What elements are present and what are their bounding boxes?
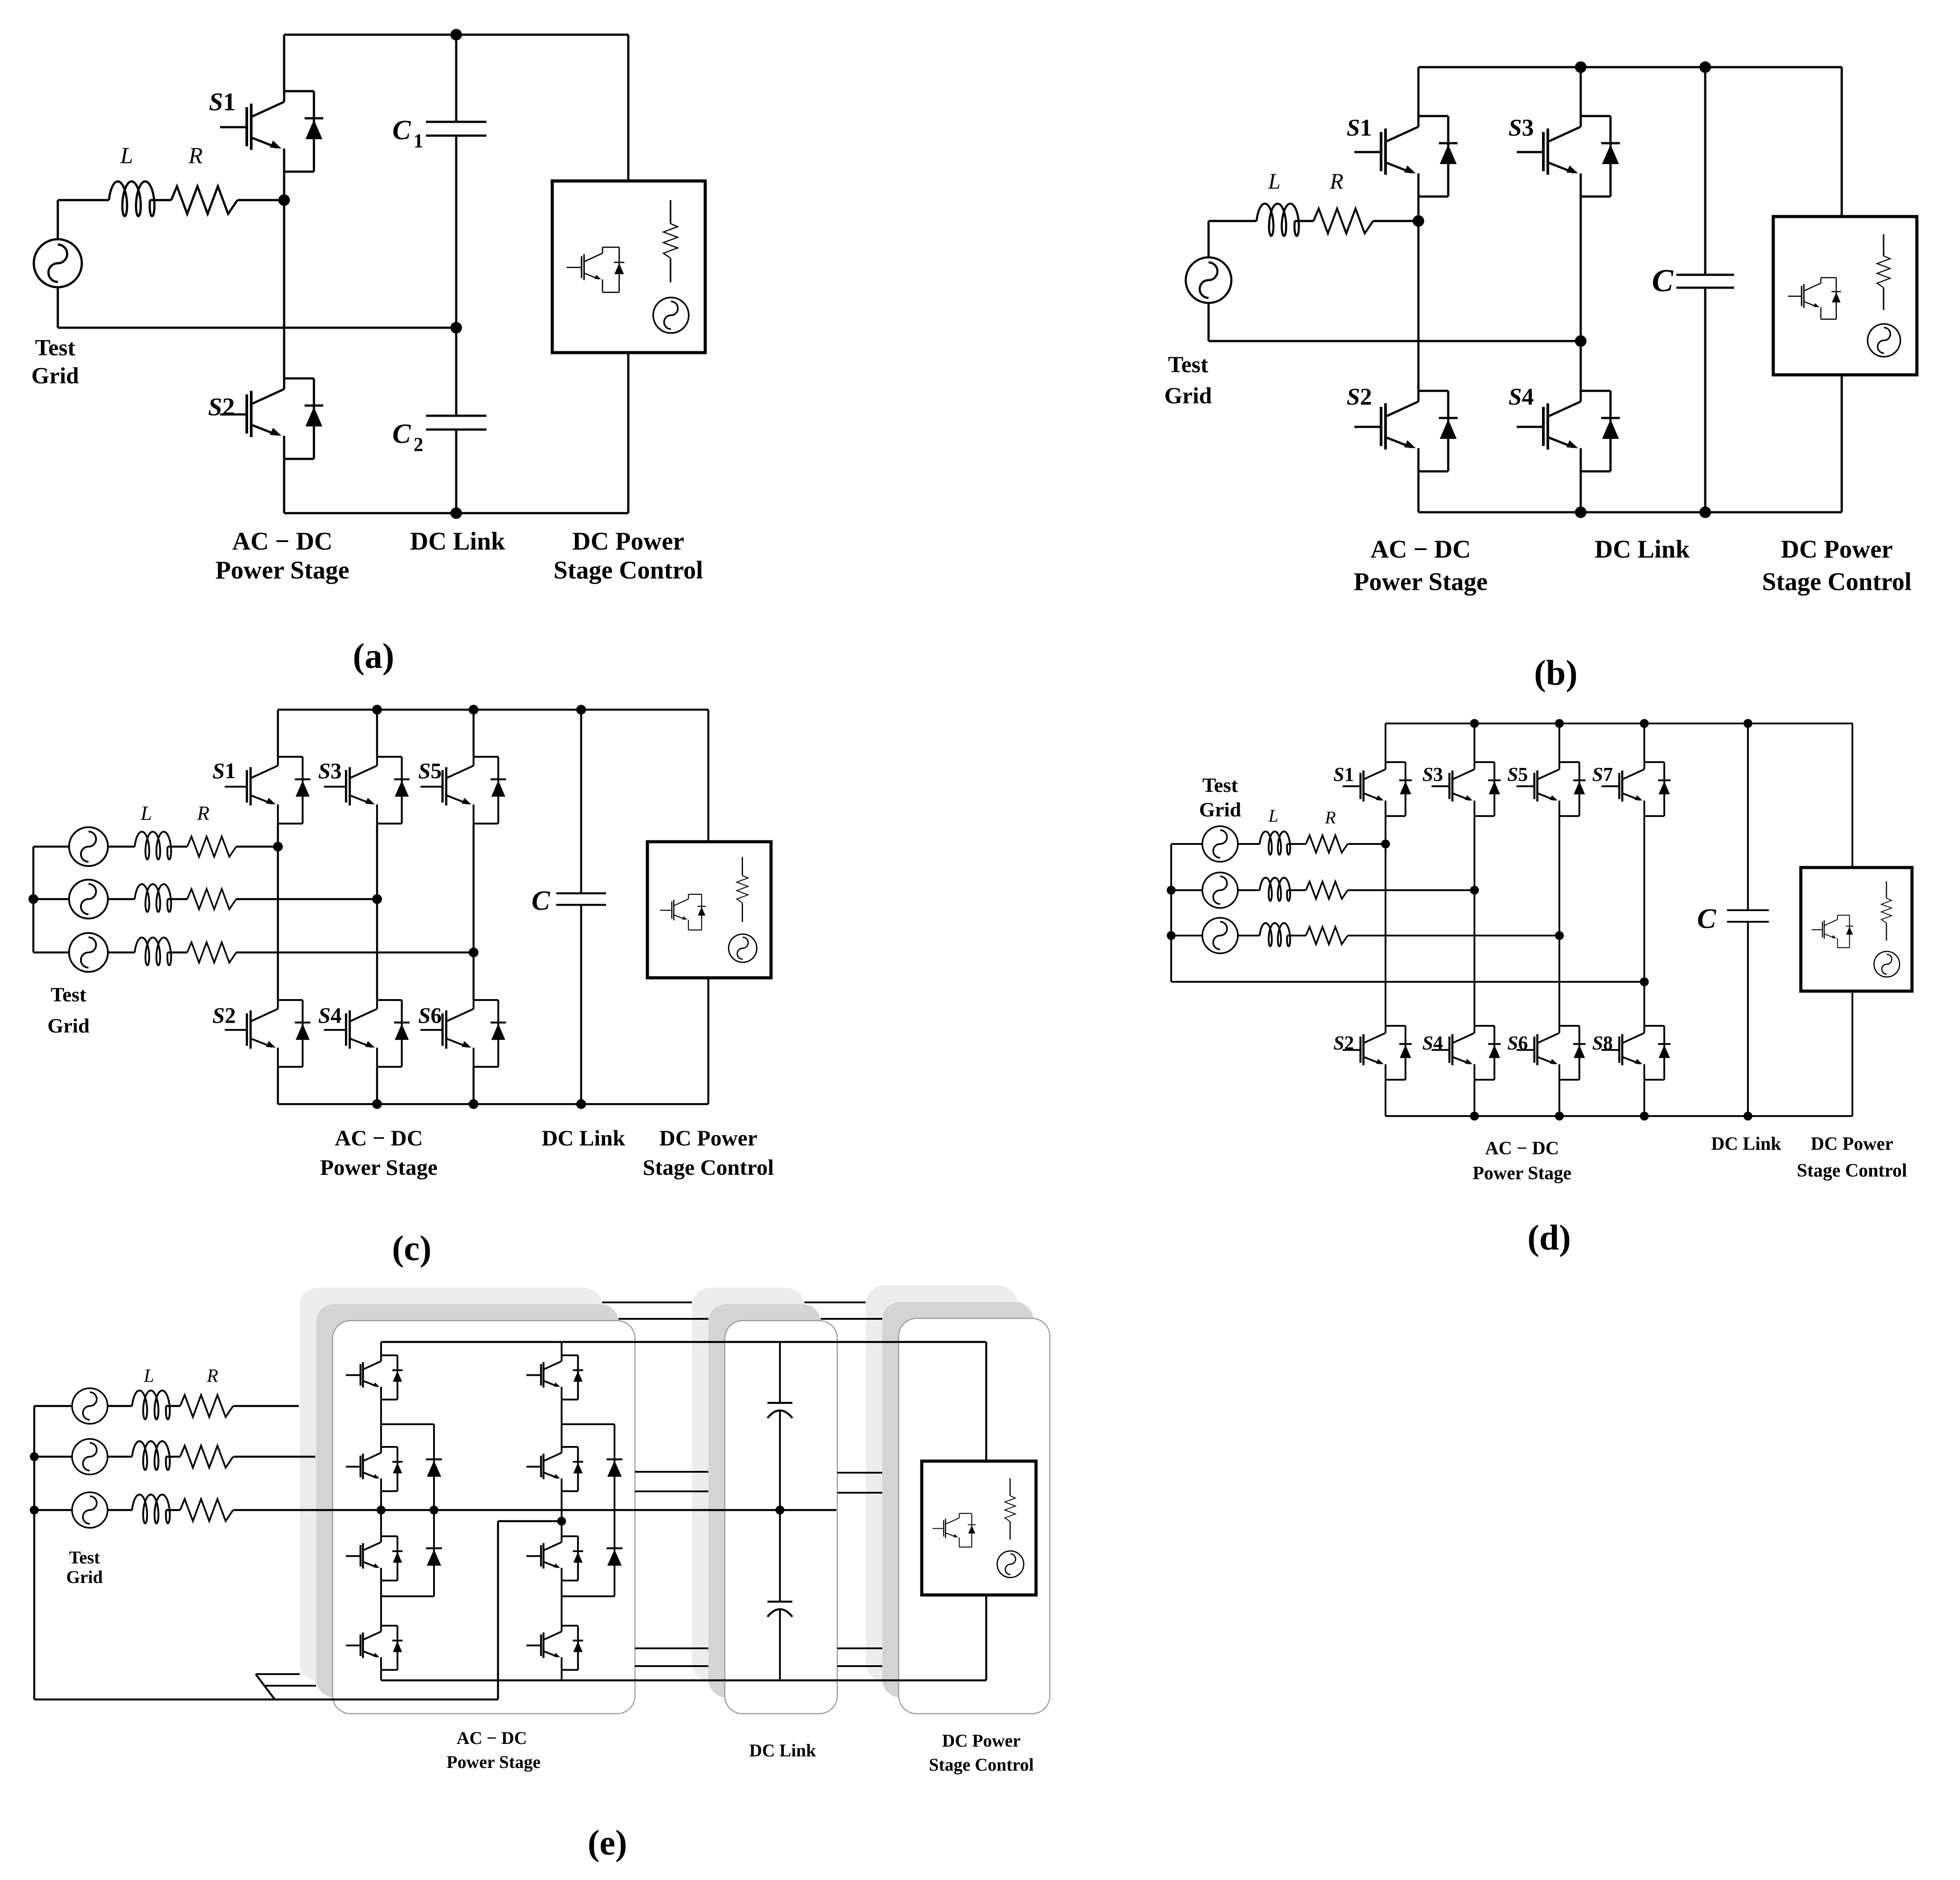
svg-text:C: C: [392, 419, 411, 449]
node: phase A / leg junction: [1381, 840, 1390, 848]
wire: bottom DC bus: [381, 1679, 986, 1682]
resistor R phase A: [1306, 835, 1348, 852]
svg-text:R: R: [197, 802, 209, 824]
wire: S1 emitter lead: [1385, 816, 1386, 844]
wire: resistor to leg phase A: [236, 846, 278, 848]
wire: top DC rail: [1386, 723, 1852, 724]
svg-text:S4: S4: [1508, 383, 1534, 410]
transistor S5: [1517, 762, 1586, 816]
wire: S3 emitter lead: [376, 824, 378, 899]
svg-text:S6: S6: [418, 1003, 442, 1028]
svg-text:Power Stage: Power Stage: [1354, 568, 1487, 596]
wire: bus to AC source phase B: [34, 1456, 72, 1458]
transistor leg A module 1 (IGBT with antiparallel diode): [346, 1355, 403, 1400]
wire: AC return to S3-S4 midpoint: [1209, 340, 1581, 342]
node: bottom rail / leg2: [372, 1099, 382, 1109]
node: phase B / leg junction: [372, 894, 382, 904]
wire: AC source to inductor phase A: [108, 1405, 132, 1407]
DC power stage control box (b): outline: [1773, 217, 1917, 375]
wire: back layer top bus (AC-DC to DC link): [602, 1302, 692, 1303]
transistor S4: [1432, 1026, 1501, 1080]
wire: bottom DC rail: [1418, 511, 1842, 514]
svg-text:S2: S2: [1333, 1032, 1354, 1054]
transistor leg B module 1 (IGBT with antiparallel diode): [526, 1355, 583, 1400]
wire: bus to AC source phase A: [33, 846, 69, 848]
wire: neutral return to fourth leg: [1171, 981, 1644, 983]
svg-text:R: R: [1329, 169, 1344, 193]
wire: top DC bus: [381, 1341, 986, 1343]
wire: leg4 to S8: [1643, 982, 1645, 1026]
node: bottom rail / C leg: [576, 1099, 586, 1109]
svg-text:Grid: Grid: [32, 363, 79, 389]
wire: bus to AC source phase B: [33, 898, 69, 900]
AC source: phase A: [1202, 826, 1238, 862]
node: bottom rail junction: [1743, 1112, 1752, 1121]
resistor R phase C: [1306, 927, 1348, 944]
wire: bus to AC source phase B: [1171, 889, 1202, 891]
wire: control branch top lead: [707, 710, 710, 842]
wire: layer merge top segment: [256, 1673, 300, 1675]
transistor S1: [225, 757, 310, 824]
wire: AC source bottom lead: [57, 287, 59, 328]
wire: bus to AC source phase C: [34, 1509, 72, 1511]
node: left bus / phase C: [1167, 931, 1176, 940]
inductor L: [1257, 204, 1299, 236]
clamp diode leg A upper: [426, 1459, 442, 1477]
svg-text:Stage Control: Stage Control: [1762, 568, 1912, 596]
wire: C top lead: [1704, 67, 1707, 275]
inductor L phase C: [135, 937, 171, 965]
transistor leg A module 2 (IGBT with antiparallel diode): [346, 1447, 403, 1491]
wire: AC source to inductor phase C: [108, 1509, 132, 1511]
node: top rail junction: [1743, 719, 1752, 728]
node: left bus / phase B: [1167, 886, 1176, 895]
AC source: phase C: [72, 1492, 108, 1528]
wire: AC source bottom lead: [1208, 302, 1210, 341]
wire: DC-link upper capacitor to midpoint: [779, 1410, 781, 1510]
node: DC-link midpoint: [775, 1506, 784, 1514]
wire: leg B collector from top bus: [561, 1342, 562, 1355]
svg-text:DC Power: DC Power: [572, 527, 684, 555]
AC source: phase B: [1202, 872, 1238, 908]
svg-text:Power Stage: Power Stage: [1473, 1163, 1571, 1184]
transistor S3: [1432, 762, 1501, 816]
svg-text:(e): (e): [588, 1824, 627, 1863]
node: phase input / S1-S2 midpoint: [278, 194, 290, 206]
svg-text:Grid: Grid: [1165, 383, 1212, 409]
node: left bus / phase B: [30, 1452, 39, 1461]
wire: leg B between modules 3-4: [561, 1581, 562, 1626]
svg-text:Test: Test: [35, 335, 76, 361]
svg-text:L: L: [140, 802, 152, 824]
transistor S1 (IGBT with antiparallel diode): [220, 91, 323, 172]
wire: leg B module 4 to bottom bus: [561, 1670, 562, 1680]
svg-text:Test: Test: [51, 983, 87, 1006]
wire: left bus of test grid: [33, 1406, 36, 1699]
wire: S2 emitter to bottom rail: [283, 459, 285, 513]
wire: leg3 to S6: [1558, 936, 1560, 1026]
wire: leg A clamp branch top: [381, 1423, 434, 1425]
wire: hidden layer bus stub (AC-DC to DC link): [635, 1647, 708, 1649]
svg-text:AC − DC: AC − DC: [1370, 535, 1471, 563]
svg-text:S2: S2: [213, 1003, 236, 1028]
wire: S2 leg from midpoint: [283, 200, 285, 378]
wire: leg B clamp branch top: [562, 1423, 615, 1425]
DC power stage control box (c): outline: [647, 842, 771, 978]
node: S3-S4 midpoint: [1575, 335, 1586, 347]
wire: S1 emitter lead: [1418, 197, 1420, 221]
svg-text:S2: S2: [1346, 383, 1372, 410]
wire: control branch bottom lead: [707, 978, 710, 1104]
wire: leg A between modules 1-2: [380, 1400, 382, 1447]
capacitor C2: [426, 415, 486, 417]
node: bottom rail junction: [1640, 1112, 1649, 1121]
wire: S4 emitter to bottom rail: [1474, 1080, 1475, 1116]
wire: S3 emitter lead: [1474, 816, 1475, 890]
DC link card: middle layer: [708, 1304, 821, 1697]
svg-text:Stage Control: Stage Control: [1797, 1161, 1907, 1181]
wire: AC to inductor: [1209, 220, 1257, 222]
DC power stage control box (e): inner symbols (IGBT, resistor, AC source): [932, 1478, 1024, 1577]
svg-text:L: L: [143, 1366, 154, 1386]
svg-text:S4: S4: [318, 1003, 342, 1028]
svg-text:Stage Control: Stage Control: [643, 1155, 774, 1180]
wire: DC-link lower capacitor to bottom bus: [779, 1609, 781, 1680]
svg-text:Stage Control: Stage Control: [929, 1755, 1034, 1775]
wire: leg3 to S6: [473, 952, 475, 1000]
resistor R phase A: [180, 1395, 233, 1417]
svg-text:S2: S2: [208, 393, 235, 421]
node: top rail junction: [1555, 719, 1564, 728]
node: DC-link midpoint: [450, 322, 462, 333]
node: phase B / leg junction: [1470, 886, 1479, 895]
wire: middle layer top bus (DC link to control): [821, 1318, 882, 1320]
transistor S7: [1602, 762, 1671, 816]
AC-DC power stage card: middle layer: [316, 1304, 619, 1697]
node: phase C / leg junction: [469, 948, 478, 957]
wire: layer merge middle segment: [264, 1685, 316, 1687]
node: left bus / phase C: [30, 1506, 39, 1514]
wire: inductor to resistor phase C: [1287, 935, 1306, 936]
AC-DC power stage card: back layer: [300, 1288, 602, 1681]
node: bottom rail / C2 junction: [450, 507, 462, 519]
svg-text:R: R: [206, 1366, 218, 1386]
svg-text:DC Power: DC Power: [1811, 1134, 1893, 1154]
AC source: phase C: [1202, 918, 1238, 953]
wire: S5 emitter lead: [1558, 816, 1560, 936]
resistor R phase C: [180, 1499, 233, 1521]
DC link card: back layer: [692, 1288, 804, 1681]
wire: hidden layer bus stub (AC-DC to DC link): [635, 1471, 708, 1473]
wire: DC-link capacitor top lead: [779, 1342, 781, 1403]
resistor R phase B: [187, 889, 236, 909]
capacitor C: [1727, 909, 1769, 911]
AC source: test grid phase: [34, 239, 82, 287]
svg-text:S7: S7: [1592, 763, 1613, 785]
svg-text:Power Stage: Power Stage: [320, 1155, 438, 1180]
inductor L phase B: [132, 1441, 170, 1470]
transistor leg A module 3 (IGBT with antiparallel diode): [346, 1536, 403, 1581]
wire: S4 emitter to bottom rail: [1580, 471, 1582, 512]
inductor L phase C: [1260, 923, 1290, 946]
wire: inductor to resistor phase A: [168, 846, 187, 848]
wire: hidden layer bus stub (DC link to control): [837, 1492, 882, 1494]
svg-text:C: C: [1697, 903, 1717, 934]
AC source: phase B: [69, 880, 108, 918]
svg-text:DC Link: DC Link: [749, 1740, 816, 1760]
svg-text:DC Link: DC Link: [1595, 535, 1690, 563]
wire: leg A collector from top bus: [380, 1342, 382, 1355]
wire: inductor to resistor phase C: [166, 1509, 180, 1511]
wire: C bottom lead: [580, 905, 582, 1104]
transistor leg A module 4 (IGBT with antiparallel diode): [346, 1626, 403, 1670]
wire: control branch top lead: [1852, 723, 1853, 868]
wire: AC source to inductor phase B: [108, 898, 135, 900]
wire: C bottom lead: [1747, 922, 1749, 1116]
wire: hidden layer bus stub (DC link to control): [837, 1472, 882, 1474]
wire: S5 collector lead: [1558, 723, 1560, 762]
wire: bottom neutral return: [34, 1699, 498, 1701]
wire: leg2 to S4: [376, 899, 378, 1000]
clamp diode leg B upper: [606, 1459, 623, 1477]
wire: S3 collector lead: [376, 710, 378, 757]
inductor L phase B: [1260, 878, 1290, 901]
wire: S5 emitter lead: [473, 824, 475, 952]
svg-text:DC Power: DC Power: [1781, 535, 1893, 563]
resistor R phase B: [180, 1446, 233, 1468]
node: leg A neutral point: [377, 1506, 386, 1514]
wire: leg A between modules 3-4: [380, 1581, 382, 1626]
svg-text:(b): (b): [1534, 654, 1578, 693]
svg-text:Power Stage: Power Stage: [446, 1752, 540, 1772]
wire: S7 emitter lead: [1643, 816, 1645, 982]
wire: inductor to resistor: [1295, 220, 1313, 222]
transistor S5: [420, 757, 506, 824]
node: top rail junction: [1470, 719, 1479, 728]
wire: phase A into stack: [233, 1405, 299, 1407]
wire: left bus of test grid: [1170, 844, 1172, 982]
wire: AC source to inductor phase C: [108, 952, 135, 954]
wire: S1 emitter lead: [277, 824, 279, 847]
resistor R phase B: [1306, 881, 1348, 899]
wire: leg1 to S2: [277, 847, 279, 1000]
wire: leg2 to S4: [1474, 890, 1475, 1026]
wire: S4 leg: [1580, 341, 1582, 391]
wire: C1 bottom lead: [455, 136, 458, 328]
wire: S1 collector lead: [283, 35, 285, 91]
wire: bottom DC rail: [284, 512, 628, 514]
AC-DC power stage card: front card: [333, 1321, 635, 1714]
wire: inductor to resistor phase A: [1287, 843, 1306, 845]
DC power stage control box (a): outline: [552, 181, 705, 353]
wire: AC source to inductor phase B: [1238, 889, 1260, 891]
wire: inductor to resistor phase A: [166, 1405, 180, 1407]
node: phase C / leg junction: [1555, 931, 1564, 940]
wire: leg A between modules 2-3: [380, 1491, 382, 1536]
resistor R phase A: [187, 836, 236, 857]
transistor S2: [225, 1000, 310, 1067]
wire: bus to AC source phase C: [33, 952, 69, 954]
node: bottom rail junction: [1470, 1112, 1479, 1121]
wire: inductor to resistor phase B: [1287, 889, 1306, 891]
svg-text:2: 2: [414, 434, 423, 455]
svg-text:L: L: [1268, 169, 1281, 193]
wire: inductor to resistor: [150, 199, 171, 201]
inductor L phase C: [132, 1494, 170, 1523]
clamp diode leg A lower: [426, 1548, 442, 1566]
wire: inductor to resistor phase B: [166, 1456, 180, 1458]
transistor S3: [324, 757, 410, 824]
transistor leg B module 4 (IGBT with antiparallel diode): [526, 1626, 583, 1670]
wire: S1 collector lead: [277, 710, 279, 757]
wire: back layer top bus (DC link to control): [804, 1302, 866, 1303]
wire: resistor to leg phase C: [1348, 935, 1559, 936]
wire: control branch top lead: [985, 1342, 988, 1461]
wire: hidden layer bus stub (AC-DC to DC link): [635, 1665, 708, 1667]
svg-text:(a): (a): [353, 637, 394, 676]
wire: leg B clamp branch vertical: [614, 1424, 615, 1596]
resistor R phase C: [187, 942, 236, 963]
inductor L phase B: [135, 884, 171, 912]
DC power stage control box (d): inner symbols (IGBT, resistor, AC source): [1811, 881, 1900, 977]
wire: hidden layer bus stub (DC link to control): [837, 1665, 882, 1667]
AC source: test grid phase: [1186, 257, 1232, 303]
wire: S7 collector lead: [1643, 723, 1645, 762]
wire: C1 top lead: [455, 35, 458, 122]
wire: control branch top lead: [1841, 67, 1843, 217]
clamp diode leg B lower: [606, 1548, 623, 1566]
svg-text:Stage Control: Stage Control: [554, 556, 703, 584]
wire: resistor to leg phase C: [236, 952, 474, 954]
wire: leg B neutral step horizontal: [498, 1520, 562, 1522]
transistor S2: [1343, 1026, 1412, 1080]
svg-text:S3: S3: [1422, 763, 1443, 785]
wire: AC source top lead: [57, 200, 59, 239]
DC power stage control box (d): outline: [1801, 868, 1912, 991]
wire: leg B clamp branch bottom: [562, 1595, 615, 1597]
transistor S3: [1517, 116, 1620, 197]
wire: leg1 to S2: [1385, 844, 1386, 1026]
transistor S6: [420, 1000, 506, 1067]
svg-text:DC Power: DC Power: [659, 1125, 758, 1150]
transistor leg B module 2 (IGBT with antiparallel diode): [526, 1447, 583, 1491]
svg-text:(c): (c): [392, 1229, 432, 1268]
wire: top DC rail: [278, 709, 708, 711]
DC power stage control card: middle layer: [882, 1302, 1033, 1697]
node: fourth leg / neutral junction: [1640, 977, 1649, 986]
transistor leg B module 3 (IGBT with antiparallel diode): [526, 1536, 583, 1581]
wire: control branch top lead: [627, 35, 630, 181]
svg-text:AC − DC: AC − DC: [457, 1728, 527, 1748]
wire: S6 emitter to bottom rail: [473, 1067, 475, 1104]
resistor R: [171, 186, 237, 214]
svg-text:S1: S1: [1346, 114, 1372, 141]
inductor L phase A: [135, 832, 171, 859]
node: top rail / C1 junction: [450, 29, 462, 40]
wire: leg A clamp branch vertical: [433, 1424, 435, 1596]
wire: hidden layer bus stub (AC-DC to DC link): [635, 1490, 708, 1492]
wire: hidden layer bus stub (DC link to control): [837, 1647, 882, 1649]
svg-text:S4: S4: [1422, 1032, 1443, 1054]
DC power stage control card: front card: [899, 1318, 1050, 1714]
wire: AC return to DC-link midpoint: [58, 327, 456, 329]
wire: control branch bottom lead: [985, 1595, 988, 1680]
svg-text:S1: S1: [209, 88, 236, 116]
DC power stage control card: back layer: [866, 1285, 1017, 1681]
wire: S1 collector lead: [1385, 723, 1386, 762]
node: left bus / phase B: [28, 894, 38, 904]
wire: S8 emitter to bottom rail: [1643, 1080, 1645, 1116]
AC source: phase A: [72, 1388, 108, 1424]
transistor S4: [324, 1000, 410, 1067]
node: leg B neutral point: [557, 1517, 566, 1526]
node: bottom rail / S3-S4 leg: [1575, 506, 1586, 518]
svg-text:S1: S1: [1333, 763, 1354, 785]
wire: S2 emitter to bottom rail: [1385, 1080, 1386, 1116]
wire: C2 top lead: [455, 328, 458, 416]
node: top rail / leg2: [372, 705, 382, 715]
DC power stage control box (c): inner symbols (IGBT, resistor, AC source): [660, 857, 757, 962]
wire: S6 emitter to bottom rail: [1558, 1080, 1560, 1116]
wire: AC source to inductor phase A: [1238, 843, 1260, 845]
wire: top DC rail: [1418, 66, 1842, 68]
wire: leg A clamp branch bottom: [381, 1595, 434, 1597]
AC source: phase C: [69, 933, 108, 972]
wire: resistor to leg phase B: [1348, 889, 1474, 891]
svg-text:S5: S5: [418, 758, 442, 783]
transistor S1: [1354, 116, 1458, 197]
node: leg A clamp midpoint: [430, 1506, 438, 1514]
svg-text:DC Link: DC Link: [542, 1125, 625, 1150]
inductor L phase A: [1260, 832, 1290, 855]
wire: S2 emitter to bottom rail: [1418, 471, 1420, 512]
wire: C top lead: [580, 710, 582, 893]
wire: AC source top lead: [1208, 221, 1210, 258]
capacitor C: [556, 892, 606, 895]
wire: control branch bottom lead: [1841, 375, 1843, 512]
DC power stage control box (b): inner symbols (IGBT, resistor, AC source): [1788, 234, 1900, 357]
AC source: phase A: [69, 827, 108, 866]
capacitor DC-link lower: flat plate: [767, 1601, 792, 1603]
wire: S5 collector lead: [473, 710, 475, 757]
wire: DC-link midpoint to lower capacitor: [779, 1510, 781, 1602]
node: bottom rail junction: [1555, 1112, 1564, 1121]
node: phase A / leg junction: [273, 842, 283, 852]
svg-text:S6: S6: [1507, 1032, 1528, 1054]
svg-text:C: C: [1652, 263, 1674, 298]
svg-text:L: L: [120, 143, 133, 169]
wire: left bus of test grid: [32, 847, 35, 952]
svg-text:1: 1: [414, 130, 423, 152]
svg-text:DC Power: DC Power: [942, 1731, 1021, 1751]
wire: AC source to inductor phase A: [108, 846, 135, 848]
svg-text:DC Link: DC Link: [1711, 1134, 1781, 1154]
AC source: phase B: [72, 1439, 108, 1474]
wire: resistor to leg phase A: [1348, 843, 1386, 845]
svg-text:S1: S1: [213, 758, 236, 783]
wire: S2 emitter to bottom rail: [277, 1067, 279, 1104]
wire: layer merge diagonal: [256, 1674, 275, 1699]
wire: resistor to midpoint node: [237, 199, 284, 201]
wire: bottom DC rail: [1386, 1115, 1852, 1117]
resistor R: [1313, 209, 1373, 233]
node: top rail / S3 leg: [1575, 61, 1586, 73]
wire: top DC rail: [284, 34, 628, 36]
wire: S4 emitter to bottom rail: [376, 1067, 378, 1104]
wire: bottom DC rail: [278, 1103, 708, 1105]
wire: inductor to resistor phase B: [168, 898, 187, 900]
svg-text:DC Link: DC Link: [410, 527, 505, 555]
